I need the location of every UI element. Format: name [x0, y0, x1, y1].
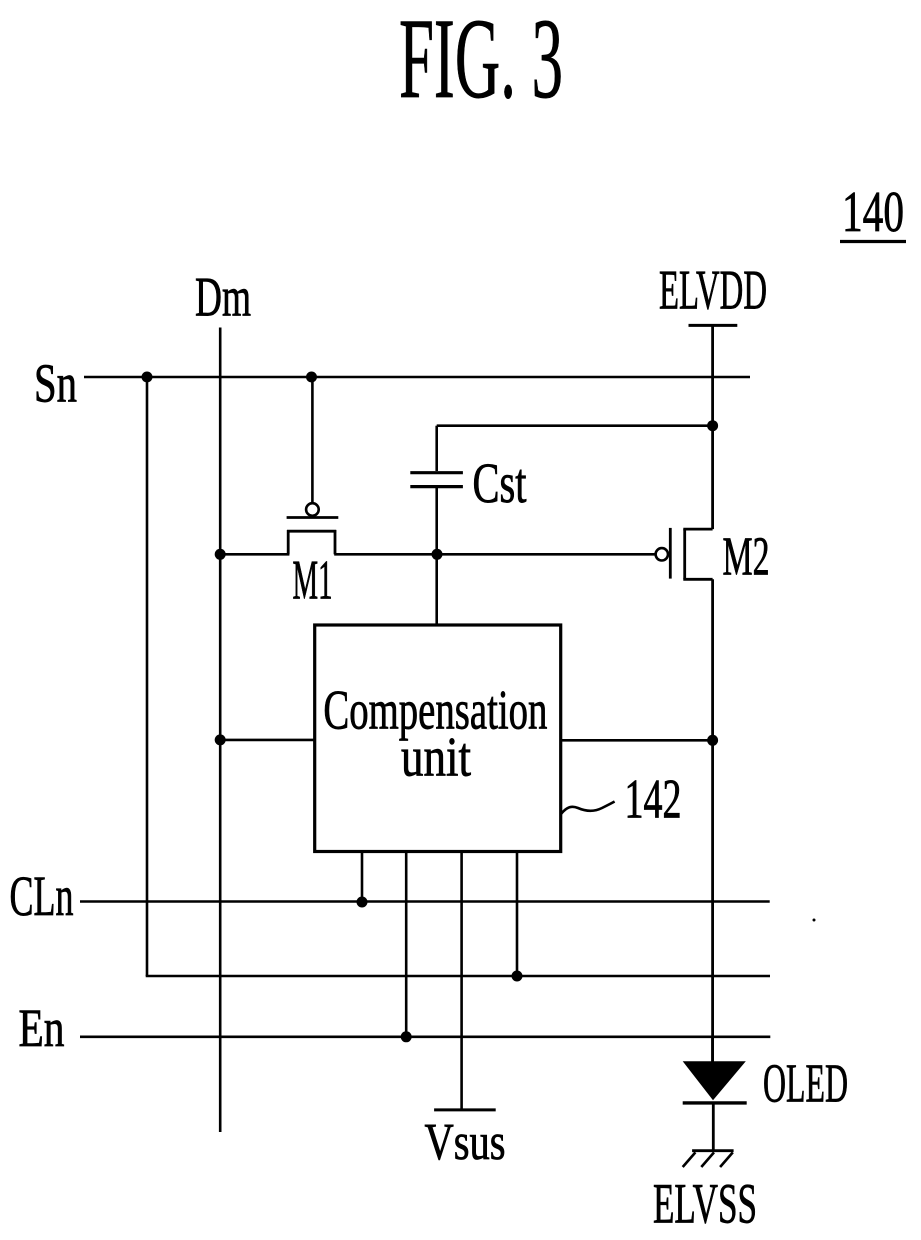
svg-text:Cst: Cst [473, 452, 527, 515]
wire ELVDD vertical upper [711, 325, 714, 529]
junction CLn-pin1 [357, 897, 368, 908]
leader squiggle to 142 [561, 802, 615, 815]
svg-text:ELVDD: ELVDD [659, 260, 767, 322]
compensation unit box 142 [315, 625, 561, 852]
wire Cst to ELVDD [437, 424, 713, 427]
transistor M2 [656, 528, 713, 579]
junction ELVDD-Cst [707, 420, 718, 431]
wire Sn branch vertical [146, 377, 149, 976]
svg-text:Sn: Sn [34, 353, 77, 414]
wire Sn scan line [84, 376, 750, 379]
junction Sn-branch [142, 372, 153, 383]
ground ELVSS symbol [683, 1151, 734, 1167]
power ELVDD bar [689, 324, 738, 327]
wire box bottom pin3 [460, 852, 463, 1110]
wire box bottom pin2 [405, 852, 408, 1037]
svg-text:M1: M1 [293, 550, 333, 612]
wire box bottom pin1 [361, 852, 364, 903]
wire box bottom pin4 [516, 852, 519, 977]
wire M1 row left segment [220, 553, 289, 556]
capacitor Cst [410, 426, 463, 560]
junction Dm-M1 [215, 549, 226, 560]
wire CLn line [80, 900, 770, 903]
svg-text:142: 142 [625, 769, 682, 831]
svg-text:140: 140 [842, 179, 904, 244]
wire box left pin [220, 739, 315, 742]
junction Dm-compensation [215, 734, 226, 745]
svg-text:OLED: OLED [763, 1053, 848, 1114]
junction ELVDD-compensation [707, 735, 718, 746]
speck artifact [813, 919, 816, 922]
wire M1 row right segment [334, 553, 655, 556]
wire Dm data line vertical [219, 328, 222, 1133]
junction En-pin2 [401, 1031, 412, 1042]
wire lower horizontal from Sn branch [146, 975, 770, 978]
svg-text:ELVSS: ELVSS [653, 1173, 757, 1236]
wire box right pin [561, 739, 713, 742]
svg-text:unit: unit [401, 727, 471, 789]
wire En line [80, 1036, 770, 1039]
svg-text:M2: M2 [723, 526, 770, 587]
transistor M1 [287, 377, 339, 554]
power Vsus terminal [434, 1108, 496, 1111]
wire ELVDD vertical lower [711, 579, 714, 1061]
svg-text:Dm: Dm [195, 267, 251, 329]
svg-text:Vsus: Vsus [425, 1114, 506, 1171]
diode OLED [683, 1037, 747, 1151]
svg-text:FIG. 3: FIG. 3 [399, 0, 563, 122]
junction Sn-M1gate [306, 372, 317, 383]
reference numeral 140 [840, 179, 906, 244]
svg-text:En: En [19, 998, 65, 1058]
junction lower-line pin4 [512, 971, 523, 982]
wire box top pin [435, 554, 438, 625]
svg-text:CLn: CLn [10, 865, 74, 928]
